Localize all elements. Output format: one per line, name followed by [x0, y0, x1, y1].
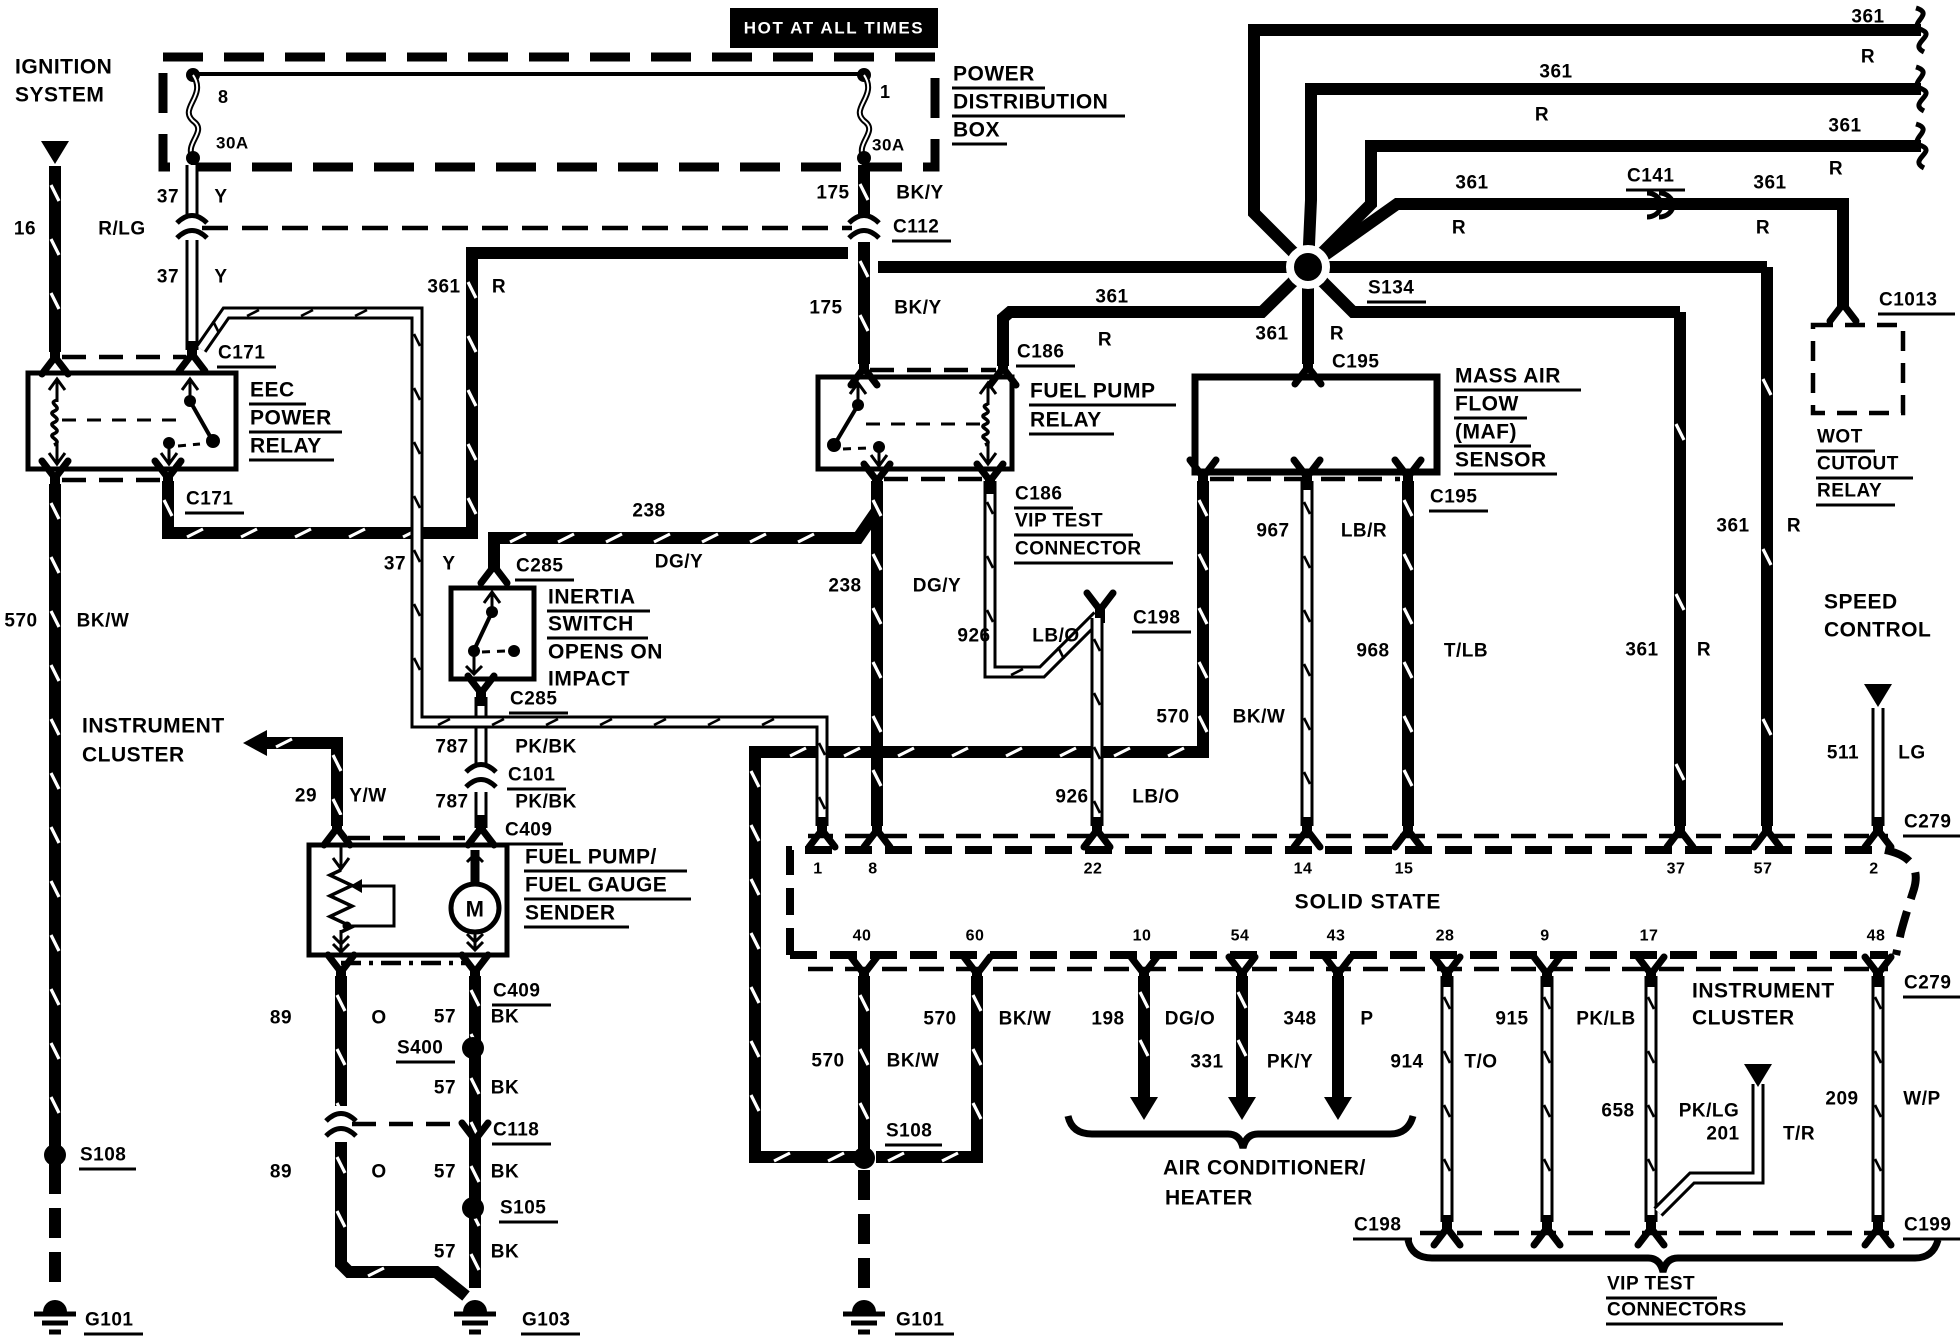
svg-text:8: 8 [218, 87, 229, 107]
svg-text:40: 40 [853, 928, 872, 945]
label 348 P [1283, 1009, 1373, 1030]
svg-text:22: 22 [1084, 861, 1103, 878]
svg-text:R: R [1861, 47, 1875, 68]
svg-text:209: 209 [1825, 1089, 1858, 1110]
svg-text:BK/Y: BK/Y [896, 183, 943, 204]
fork solid state pin 40 [851, 957, 877, 987]
dashed line C112 [202, 226, 852, 231]
WOT cutout relay label [1816, 427, 1913, 506]
label S400 [396, 1038, 455, 1063]
fuel gauge sender rheostat [330, 847, 394, 952]
pin number 17 [1640, 928, 1659, 945]
svg-text:RELAY: RELAY [250, 435, 322, 458]
svg-text:LB/R: LB/R [1341, 521, 1387, 542]
svg-text:P: P [1360, 1009, 1373, 1030]
svg-text:R: R [1098, 330, 1112, 351]
pin number 8 [868, 861, 877, 878]
squiggle end wire 3 [1916, 124, 1926, 168]
fork 926 LB/O at C186 [977, 464, 1003, 494]
fuel pump relay coil [980, 383, 996, 464]
svg-text:CUTOUT: CUTOUT [1817, 454, 1899, 475]
wire 787 PK/BK C101 to fuel pump sender [475, 792, 488, 828]
label 238 DG/Y horizontal [632, 501, 703, 573]
svg-text:PK/Y: PK/Y [1267, 1052, 1313, 1073]
pin number 9 [1540, 928, 1549, 945]
ignition system feed arrow [41, 141, 69, 164]
svg-text:Y: Y [214, 187, 227, 208]
label S108 left [79, 1145, 136, 1170]
wire 926 LB/O C198 to solid state pin 22 [1094, 618, 1100, 826]
svg-text:R: R [1330, 324, 1344, 345]
svg-text:361: 361 [1828, 116, 1861, 137]
fork 175 BK/Y at fuel pump relay [851, 355, 877, 385]
svg-text:361: 361 [1716, 516, 1749, 537]
svg-text:SENSOR: SENSOR [1455, 449, 1547, 472]
dashed line C186 bottom [884, 477, 984, 482]
svg-text:PK/LB: PK/LB [1576, 1009, 1636, 1030]
svg-text:331: 331 [1190, 1052, 1223, 1073]
squiggle end wire 2 [1916, 67, 1926, 111]
svg-text:FLOW: FLOW [1455, 393, 1519, 416]
label C186 VIP test connector [1014, 484, 1173, 564]
svg-text:17: 17 [1640, 928, 1659, 945]
wire 511 LG speed control to solid state pin 2 [1872, 708, 1885, 826]
instrument cluster 201 arrow [1744, 1064, 1772, 1087]
svg-text:89: 89 [270, 1008, 292, 1029]
pin number 22 [1084, 861, 1103, 878]
fork solid state pin 8 [864, 817, 890, 847]
svg-text:238: 238 [632, 501, 665, 522]
fork 238 DG/Y at C186 [864, 464, 890, 494]
label 331 PK/Y [1190, 1052, 1313, 1073]
label C409 below sender [492, 981, 551, 1006]
svg-text:BK: BK [491, 1162, 519, 1183]
label 209 W/P [1825, 1089, 1940, 1110]
air conditioner heater brace [1068, 1116, 1413, 1148]
label 361 R branch2 [1535, 62, 1573, 126]
label 570 BK/W pin 60 [923, 1009, 1051, 1030]
inertia switch label [547, 586, 663, 691]
svg-text:CONNECTOR: CONNECTOR [1015, 539, 1142, 560]
pin number 14 [1294, 861, 1313, 878]
fork solid state pin 9 [1534, 957, 1560, 987]
svg-text:C195: C195 [1332, 352, 1379, 373]
wire 967 LB/R MAF to solid state pin 14 [1304, 481, 1310, 826]
svg-text:SPEED: SPEED [1824, 591, 1898, 614]
solid state module box [790, 850, 1916, 955]
svg-text:37: 37 [157, 187, 179, 208]
fork 361 R at MAF top [1295, 354, 1321, 384]
svg-text:C171: C171 [218, 343, 265, 364]
wire 926 LB/O fuel pump relay to C198 [987, 481, 1098, 675]
arrow end 198 DG/O [1130, 1097, 1158, 1120]
svg-text:FUEL PUMP: FUEL PUMP [1030, 380, 1155, 403]
label C198 bottom [1353, 1215, 1412, 1240]
label C198 apex [1132, 608, 1191, 633]
label 361 R to fuel pump relay [1095, 287, 1128, 351]
MAF sensor label [1454, 365, 1581, 475]
svg-text:C279: C279 [1904, 812, 1951, 833]
fuel pump relay internal dashed link [866, 423, 980, 426]
splice S105 [462, 1197, 484, 1219]
svg-text:T/R: T/R [1783, 1124, 1815, 1145]
svg-text:30A: 30A [872, 136, 905, 155]
wire 175 BK/Y fuse to C112 [860, 165, 868, 216]
svg-text:201: 201 [1706, 1124, 1739, 1145]
label 238 DG/Y vertical [828, 576, 961, 597]
svg-text:POWER: POWER [250, 407, 332, 430]
connector C141 [1647, 193, 1673, 217]
svg-text:HOT AT ALL TIMES: HOT AT ALL TIMES [744, 19, 924, 38]
svg-text:POWER: POWER [953, 63, 1035, 86]
label 914 T/O [1390, 1052, 1497, 1073]
fuse 8 label [216, 87, 249, 153]
svg-text:G101: G101 [85, 1310, 133, 1331]
label 57 BK row1 [434, 1007, 519, 1028]
svg-text:C285: C285 [516, 556, 563, 577]
svg-text:9: 9 [1540, 928, 1549, 945]
svg-text:570: 570 [4, 611, 37, 632]
EEC relay switch [161, 379, 220, 464]
wire 37 Y keep-alive C171 to solid state pin 1 [201, 310, 825, 826]
label 967 LB/R [1256, 521, 1387, 542]
svg-text:LB/O: LB/O [1132, 787, 1179, 808]
svg-text:C118: C118 [493, 1120, 539, 1141]
label 511 LG [1827, 743, 1926, 764]
fork 787 at C409 [468, 815, 494, 845]
fork 361 R at fuel pump relay [990, 355, 1016, 385]
fork solid state pin 57 [1754, 817, 1780, 847]
svg-text:C186: C186 [1015, 484, 1062, 505]
fuse 8 30A [186, 68, 200, 165]
label G101 center [895, 1310, 954, 1335]
svg-text:54: 54 [1231, 928, 1250, 945]
pin number 37 [1667, 861, 1686, 878]
svg-text:C1013: C1013 [1879, 290, 1938, 311]
svg-text:SENDER: SENDER [525, 902, 616, 925]
svg-text:S105: S105 [500, 1198, 546, 1219]
svg-text:RELAY: RELAY [1817, 481, 1882, 502]
label 926 LB/O lower [1055, 787, 1179, 808]
label 29 Y/W [295, 786, 387, 807]
svg-text:HEATER: HEATER [1165, 1187, 1253, 1210]
ground G101 center [843, 1300, 885, 1332]
svg-text:37: 37 [157, 267, 179, 288]
svg-text:C141: C141 [1627, 166, 1674, 187]
label 57 BK row2 [434, 1078, 519, 1099]
fuel pump relay switch [827, 383, 887, 466]
splice S134 [1290, 249, 1326, 285]
label G101 left [84, 1310, 143, 1335]
fuel pump / fuel gauge sender box [309, 845, 507, 955]
svg-text:361: 361 [1455, 173, 1488, 194]
svg-text:43: 43 [1327, 928, 1346, 945]
svg-text:CLUSTER: CLUSTER [1692, 1007, 1795, 1030]
svg-text:CONNECTORS: CONNECTORS [1607, 1300, 1747, 1321]
svg-text:1: 1 [813, 861, 822, 878]
fork 89 O below sender [328, 955, 354, 985]
svg-text:198: 198 [1091, 1009, 1124, 1030]
fork solid state pin 43 [1325, 957, 1351, 987]
label C101 [507, 765, 566, 790]
fork solid state pin 2 [1865, 817, 1891, 847]
svg-text:BOX: BOX [953, 119, 1000, 142]
dashed line C195 bottom [1210, 477, 1400, 482]
fuel pump relay box [818, 377, 1012, 469]
WOT cutout relay box [1813, 325, 1903, 413]
fork 570 BK/W at C171 [42, 461, 68, 491]
fork solid state pin 48 [1865, 957, 1891, 987]
label C118 [492, 1120, 551, 1145]
label 361 R at EEC output riser [427, 277, 506, 298]
power distribution box outline [163, 57, 935, 167]
dashed line C171 top [62, 355, 186, 360]
label instrument cluster right [1692, 980, 1835, 1030]
fuse 1 30A [857, 68, 871, 165]
dashed line C279 top [808, 834, 1888, 839]
fuel pump motor [451, 850, 499, 950]
pin number 10 [1133, 928, 1152, 945]
dashed line C118 [352, 1122, 463, 1127]
label 361 R pin 37 [1625, 640, 1711, 661]
label 57 BK row3 [434, 1162, 519, 1183]
label 926 LB/O upper [957, 626, 1079, 647]
label S108 center [885, 1121, 942, 1146]
svg-text:OPENS ON: OPENS ON [548, 641, 663, 664]
svg-text:57: 57 [1754, 861, 1773, 878]
wire 331 PK/Y solid state pin 54 [1238, 976, 1246, 1098]
svg-text:Y: Y [214, 267, 227, 288]
dash-dot line below sender [341, 961, 470, 966]
svg-text:R: R [1756, 218, 1770, 239]
svg-text:361: 361 [427, 277, 460, 298]
svg-text:48: 48 [1867, 928, 1886, 945]
label 915 PK/LB [1495, 1009, 1635, 1030]
wire 361 R to splice S134 [878, 261, 1308, 273]
MAF sensor box [1195, 377, 1437, 472]
EEC power relay box [28, 373, 236, 469]
svg-text:R/LG: R/LG [98, 219, 145, 240]
svg-text:MASS AIR: MASS AIR [1455, 365, 1561, 388]
label C409 at connector [504, 820, 563, 845]
svg-text:37: 37 [1667, 861, 1686, 878]
svg-text:BK/W: BK/W [887, 1051, 940, 1072]
svg-text:30A: 30A [216, 134, 249, 153]
fork solid state pin 17 [1638, 957, 1664, 987]
svg-text:915: 915 [1495, 1009, 1528, 1030]
wire 570 BK/W solid state pin 60 to S108 [876, 976, 981, 1161]
connector C118 arcs [324, 1106, 358, 1142]
fork solid state pin 37 [1667, 817, 1693, 847]
inertia switch contacts [466, 592, 520, 674]
dashed line C171 bottom [62, 478, 162, 483]
svg-text:28: 28 [1436, 928, 1455, 945]
svg-text:R: R [1697, 640, 1711, 661]
svg-text:361: 361 [1851, 7, 1884, 28]
label 787 PK/BK lower [435, 792, 576, 813]
svg-text:787: 787 [435, 737, 468, 758]
wire 968 T/LB MAF to solid state pin 15 [1404, 481, 1412, 826]
svg-text:968: 968 [1356, 641, 1389, 662]
wire 361 R to MAF sensor [1302, 267, 1314, 364]
svg-text:T/LB: T/LB [1444, 641, 1488, 662]
svg-text:DG/Y: DG/Y [655, 552, 703, 573]
dashed line C409 [348, 836, 465, 841]
inertia switch box [451, 588, 534, 679]
pin number 15 [1395, 861, 1414, 878]
label 16 R/LG [14, 219, 146, 240]
svg-text:175: 175 [816, 183, 849, 204]
svg-text:1: 1 [880, 82, 891, 102]
svg-text:967: 967 [1256, 521, 1289, 542]
fork solid state pin 10 [1131, 957, 1157, 987]
svg-text:14: 14 [1294, 861, 1313, 878]
svg-text:R: R [1535, 105, 1549, 126]
svg-text:G101: G101 [896, 1310, 944, 1331]
svg-text:175: 175 [809, 298, 842, 319]
svg-text:BK: BK [491, 1242, 519, 1263]
svg-text:60: 60 [966, 928, 985, 945]
EEC relay internal dashed link [62, 419, 183, 422]
label 361 R branch4 right [1753, 173, 1786, 239]
label 570 BK/W left [4, 611, 129, 632]
fork 968 at C195 [1395, 460, 1421, 490]
fuel pump sender label [524, 846, 691, 928]
label 37 Y mid [157, 267, 228, 288]
svg-text:O: O [371, 1162, 386, 1183]
svg-text:29: 29 [295, 786, 317, 807]
label 658 PK/LG [1601, 1101, 1739, 1122]
label 361 R branch1 [1851, 7, 1884, 68]
svg-text:361: 361 [1095, 287, 1128, 308]
label 570 BK/W pin 40 [811, 1051, 939, 1072]
svg-text:R: R [1787, 516, 1801, 537]
label C199 [1903, 1215, 1960, 1240]
label 175 BK/Y upper [816, 183, 943, 204]
svg-text:RELAY: RELAY [1030, 409, 1102, 432]
label 361 R branch4 left [1452, 173, 1489, 239]
fork 209 at C199 [1865, 1215, 1891, 1245]
wire 914 T/O solid state pin 28 to C198 [1444, 976, 1450, 1222]
EEC power relay label [249, 379, 342, 461]
wire 16 R/LG from ignition system [51, 166, 59, 352]
splice S108 left [44, 1144, 66, 1166]
wire 175 BK/Y C112 to fuel pump relay [860, 242, 868, 364]
svg-text:BK/W: BK/W [77, 611, 130, 632]
svg-text:C409: C409 [505, 820, 552, 841]
svg-text:M: M [466, 897, 485, 922]
label C285 bottom [509, 689, 568, 714]
label 787 PK/BK upper [435, 737, 576, 758]
fuel pump relay label [1029, 380, 1176, 435]
wire 57 BK fuel pump sender to G103 [471, 976, 479, 1288]
svg-text:16: 16 [14, 219, 36, 240]
pin number 54 [1231, 928, 1250, 945]
ground G103 [454, 1300, 496, 1332]
power distribution box label [952, 63, 1125, 145]
svg-text:BK: BK [491, 1078, 519, 1099]
label 37 Y upper [157, 187, 228, 208]
label 89 O lower [270, 1162, 387, 1183]
svg-text:DG/Y: DG/Y [913, 576, 961, 597]
svg-text:BK: BK [491, 1007, 519, 1028]
svg-text:511: 511 [1827, 743, 1859, 764]
svg-text:R: R [1452, 218, 1466, 239]
instrument cluster arrow [243, 730, 267, 756]
fork solid state pin 54 [1229, 957, 1255, 987]
svg-text:C101: C101 [508, 765, 555, 786]
wire 361 R branch 2 [1308, 89, 1921, 267]
dashed line C279 bottom [808, 967, 1888, 972]
svg-text:10: 10 [1133, 928, 1152, 945]
svg-text:Y: Y [442, 554, 455, 575]
label S105 [499, 1198, 558, 1223]
wire 198 DG/O solid state pin 10 [1140, 976, 1148, 1098]
label 968 T/LB [1356, 641, 1488, 662]
label C171 bottom [185, 489, 244, 514]
svg-text:57: 57 [434, 1078, 456, 1099]
label C285 top [515, 556, 574, 581]
svg-text:361: 361 [1539, 62, 1572, 83]
wire 37 Y fuse 8 to C112 [186, 165, 199, 216]
label C112 [892, 217, 951, 242]
svg-text:238: 238 [828, 576, 861, 597]
svg-text:(MAF): (MAF) [1455, 421, 1517, 444]
svg-text:INERTIA: INERTIA [548, 586, 636, 609]
ground G101 left [34, 1300, 76, 1332]
label C279 bottom right [1903, 973, 1960, 998]
fork solid state pin 28 [1434, 957, 1460, 987]
wire 361 R to fuel pump relay coil [1003, 267, 1308, 366]
fork 658 at C198 [1638, 1215, 1664, 1245]
label 89 O upper [270, 1008, 387, 1029]
label 198 DG/O [1091, 1009, 1215, 1030]
wire 361 R branch 4 to WOT cutout relay [1308, 204, 1843, 306]
svg-text:C195: C195 [1430, 487, 1477, 508]
svg-text:C409: C409 [493, 981, 540, 1002]
label 361 R pin 57 [1716, 516, 1801, 537]
svg-text:361: 361 [1753, 173, 1786, 194]
svg-text:361: 361 [1255, 324, 1288, 345]
svg-text:DISTRIBUTION: DISTRIBUTION [953, 91, 1108, 114]
svg-text:926: 926 [1055, 787, 1088, 808]
svg-text:PK/LG: PK/LG [1679, 1101, 1740, 1122]
wire 361 R branch 3 [1308, 146, 1921, 267]
wire 915 PK/LB solid state pin 9 to C198 [1544, 976, 1550, 1222]
svg-text:S108: S108 [80, 1145, 126, 1166]
label speed control [1824, 591, 1931, 642]
svg-text:C279: C279 [1904, 973, 1951, 994]
svg-text:R: R [492, 277, 506, 298]
svg-text:C186: C186 [1017, 342, 1064, 363]
wire 348 P solid state pin 43 [1332, 976, 1344, 1098]
fork 570 at C195 [1190, 460, 1216, 490]
label solid state [1295, 891, 1442, 914]
svg-text:SYSTEM: SYSTEM [15, 84, 104, 107]
VIP test connectors brace [1408, 1240, 1938, 1272]
svg-text:Y/W: Y/W [349, 786, 386, 807]
label S134 [1367, 278, 1426, 303]
label air conditioner heater [1163, 1157, 1366, 1210]
svg-text:914: 914 [1390, 1052, 1423, 1073]
svg-text:PK/BK: PK/BK [515, 792, 577, 813]
fork 914 at C198 [1434, 1215, 1460, 1245]
connector C112 arcs on 37 Y [177, 216, 207, 239]
label C186 top [1016, 342, 1075, 367]
svg-text:787: 787 [435, 792, 468, 813]
svg-text:8: 8 [868, 861, 877, 878]
pin number 2 [1869, 861, 1878, 878]
